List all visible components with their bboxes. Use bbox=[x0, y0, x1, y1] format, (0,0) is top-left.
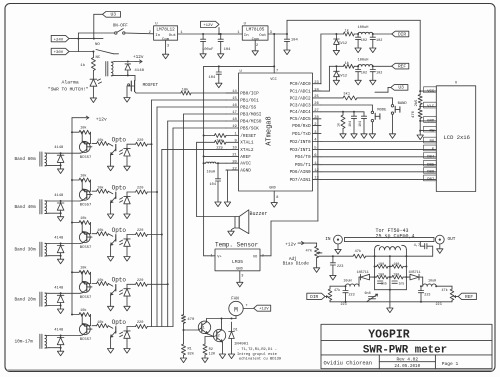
wire switch to U1 In bbox=[125, 32, 154, 35]
svg-text:104: 104 bbox=[358, 121, 362, 127]
svg-text:BC557: BC557 bbox=[80, 156, 92, 160]
svg-text:100uF: 100uF bbox=[202, 48, 214, 52]
resistor 100 (bridge 4) bbox=[390, 274, 407, 279]
wire +30V row bbox=[69, 51, 94, 53]
resistor 10k pullup (10m-17m) bbox=[71, 308, 91, 326]
wire bus PB5 to opto5 bbox=[173, 128, 226, 327]
pin 1 /RESET bbox=[226, 133, 256, 139]
relay coil Band Band 80m bbox=[40, 152, 49, 166]
resistor R1 82k bbox=[180, 330, 194, 363]
pin 27 PC4/ADC4 bbox=[290, 109, 321, 115]
svg-text:1: 1 bbox=[211, 254, 213, 258]
wire +24V row bbox=[69, 38, 103, 40]
optocoupler (Band 40m) bbox=[108, 184, 126, 214]
ground (Band 80m diode) bbox=[57, 165, 63, 173]
inductor 10uH (REF det) bbox=[423, 280, 452, 288]
zener 5V12 (REF) bbox=[333, 66, 347, 85]
svg-text:PD2/INT0: PD2/INT0 bbox=[290, 140, 311, 145]
wire bridge center to ground bbox=[387, 256, 393, 312]
pin 13 PD7/AIN1 bbox=[290, 177, 321, 183]
svg-text:2: 2 bbox=[262, 254, 264, 258]
switch ON-OFF bbox=[113, 24, 129, 34]
svg-text:DIR: DIR bbox=[310, 294, 318, 300]
capacitor 104 (pin27 b) bbox=[358, 112, 367, 139]
svg-text:28: 28 bbox=[314, 116, 319, 120]
resistor 470 (fan driver) bbox=[182, 315, 195, 331]
ground (10m-17m diode) bbox=[57, 348, 63, 356]
svg-text:PC4/ADC4: PC4/ADC4 bbox=[290, 110, 311, 115]
label toroid bbox=[376, 228, 415, 239]
inductor 10uH (DIR det) bbox=[330, 280, 359, 288]
svg-text:21: 21 bbox=[232, 154, 237, 158]
transistor T2 bbox=[213, 322, 225, 354]
svg-text:MOSFET: MOSFET bbox=[143, 83, 159, 88]
svg-text:10uH: 10uH bbox=[207, 170, 216, 174]
resistor 470 (contrast low) bbox=[412, 107, 422, 119]
connector OUT bbox=[435, 235, 455, 253]
diode 4148 (10m-17m) bbox=[54, 329, 64, 348]
capacitor 223 (REF det 2) bbox=[436, 303, 442, 307]
resistor 220 (Band 30m) bbox=[127, 229, 162, 236]
resistor 10k base (10m-17m) bbox=[87, 320, 109, 329]
capacitor 1n5 (bridge left) bbox=[378, 277, 387, 285]
svg-text:VO: VO bbox=[253, 256, 257, 260]
page 1 bbox=[442, 361, 459, 367]
wire XTAL1 to buzzer bus bbox=[197, 142, 215, 216]
svg-text:2: 2 bbox=[149, 31, 151, 35]
svg-text:PD0/RxD: PD0/RxD bbox=[292, 124, 311, 129]
label 10m-17m bbox=[15, 340, 34, 345]
svg-text:Alarma: Alarma bbox=[62, 80, 79, 86]
svg-text:Bias Diode: Bias Diode bbox=[283, 261, 310, 266]
resistor 100 (bridge 1) bbox=[375, 263, 390, 268]
resistor 100 (bridge 2) bbox=[390, 263, 407, 268]
wire DB7 line bbox=[321, 175, 436, 182]
date 24.05.2010 bbox=[394, 364, 420, 369]
svg-text:MODE: MODE bbox=[377, 109, 387, 113]
svg-text:M: M bbox=[234, 306, 238, 313]
optocoupler (Band 30m) bbox=[108, 227, 126, 257]
wire bridge right arm bbox=[405, 250, 407, 290]
pin 12 PD6/AIN0 bbox=[290, 169, 321, 175]
ground (opto LED Band 20m) bbox=[124, 306, 130, 311]
svg-text:BAND: BAND bbox=[398, 102, 408, 106]
svg-text:8: 8 bbox=[276, 196, 278, 200]
wire VCC feed to U4 bbox=[204, 34, 276, 67]
svg-text:104: 104 bbox=[348, 121, 352, 127]
capacitor 223 (bias) bbox=[330, 256, 344, 280]
svg-text:REF: REF bbox=[465, 294, 473, 300]
svg-text:YO6PIR: YO6PIR bbox=[368, 329, 410, 342]
resistor 10k (gate) bbox=[181, 88, 191, 95]
svg-text:102: 102 bbox=[361, 72, 367, 76]
node +12V tag (fan) bbox=[243, 305, 271, 312]
svg-text:25: 25 bbox=[314, 95, 319, 99]
ground (opto transistor 10m-17m) bbox=[107, 349, 113, 354]
svg-text:+24V: +24V bbox=[54, 38, 64, 42]
resistor 220 (Band 80m) bbox=[127, 139, 152, 146]
title block frame bbox=[321, 324, 492, 368]
svg-text:223: 223 bbox=[424, 294, 430, 298]
pin 17 PB3/MOSI bbox=[226, 111, 262, 117]
transistor BC557 (Band 20m) bbox=[79, 272, 92, 300]
wire pin24 to REF filter bbox=[313, 65, 338, 91]
svg-text:PC2/ADC2: PC2/ADC2 bbox=[290, 96, 311, 101]
svg-text:4148: 4148 bbox=[54, 194, 64, 198]
svg-text:OUT: OUT bbox=[448, 237, 456, 242]
svg-text:BC557: BC557 bbox=[80, 246, 92, 250]
button BAND bbox=[389, 98, 407, 138]
svg-text:4148: 4148 bbox=[134, 69, 144, 73]
IC LM35 bbox=[211, 249, 264, 278]
resistor 10k pullup (Band 20m) bbox=[71, 266, 91, 284]
svg-text:Out: Out bbox=[259, 34, 266, 38]
capacitor 1n5 (bridge right) bbox=[392, 281, 404, 285]
pin 20 AVCC bbox=[226, 160, 251, 166]
svg-text:PD6/AIN0: PD6/AIN0 bbox=[290, 170, 311, 175]
svg-text:PC1/ADC1: PC1/ADC1 bbox=[290, 90, 311, 95]
svg-text:PB1/OC1: PB1/OC1 bbox=[240, 98, 259, 103]
svg-text:+12v: +12v bbox=[96, 116, 107, 122]
ground (opto LED Band 40m) bbox=[124, 214, 130, 219]
wire coil bottom row Band 80m bbox=[49, 164, 62, 166]
wire +12v band rail bbox=[71, 118, 73, 315]
wire coil bottom row Band 30m bbox=[49, 255, 62, 257]
svg-text:Opto: Opto bbox=[112, 137, 127, 144]
wire RS line bbox=[321, 137, 436, 144]
svg-text:ON-OFF: ON-OFF bbox=[113, 24, 129, 28]
svg-text:Buzzer: Buzzer bbox=[250, 211, 268, 217]
wire bridge top connector bbox=[375, 255, 407, 257]
svg-text:5V12: 5V12 bbox=[338, 75, 347, 79]
relay coil Lk (alarm) bbox=[106, 62, 115, 77]
svg-text:LCD 2x16: LCD 2x16 bbox=[444, 134, 470, 141]
svg-text:REF: REF bbox=[398, 63, 406, 69]
svg-text:13: 13 bbox=[314, 177, 319, 181]
pin 3 PD1/TxD bbox=[292, 131, 321, 137]
svg-text:VCC: VCC bbox=[270, 78, 276, 82]
svg-text:7: 7 bbox=[276, 70, 278, 74]
svg-text:10k: 10k bbox=[80, 308, 86, 313]
svg-text:Page 1: Page 1 bbox=[442, 361, 459, 367]
wire DIR det bottom rail bbox=[330, 301, 390, 303]
wire coil bottom row Band 40m bbox=[49, 212, 62, 214]
pin 19 PB5/SCK bbox=[226, 125, 259, 131]
power arrow +12v (band drivers) bbox=[72, 116, 107, 122]
svg-text:100uH: 100uH bbox=[358, 59, 369, 63]
diode 4148 (Band 40m) bbox=[54, 194, 64, 213]
svg-text:47k: 47k bbox=[306, 248, 312, 253]
svg-text:LM78L12: LM78L12 bbox=[156, 28, 175, 33]
diode 4148 (Band 80m) bbox=[54, 146, 64, 165]
svg-text:ATmega8: ATmega8 bbox=[266, 116, 274, 145]
svg-text:14: 14 bbox=[232, 90, 237, 94]
svg-text:Opto: Opto bbox=[112, 184, 127, 191]
svg-text:R2: R2 bbox=[209, 348, 213, 352]
pin 28 PC5/ADC5 bbox=[290, 116, 321, 122]
svg-text:10: 10 bbox=[232, 147, 237, 151]
svg-text:BC557: BC557 bbox=[80, 296, 92, 300]
ground (opto transistor Band 80m) bbox=[107, 166, 113, 171]
power arrow +12v (alarm) bbox=[133, 55, 144, 63]
wire MOSFET gate to R 10k bbox=[136, 92, 181, 94]
note text (fan group) bbox=[237, 348, 281, 362]
resistor 10k base (Band 30m) bbox=[87, 228, 109, 237]
svg-text:PB0/ICP: PB0/ICP bbox=[240, 91, 259, 96]
pin 9 XTAL1 bbox=[226, 140, 254, 146]
svg-text:RS: RS bbox=[429, 140, 434, 144]
LED of opto (Band 40m) bbox=[120, 192, 131, 214]
pin 4 PD2/INT0 bbox=[290, 139, 321, 145]
label Adj Bias Diode bbox=[283, 257, 310, 267]
svg-text:1n5: 1n5 bbox=[381, 281, 387, 285]
svg-text:PD3/INT1: PD3/INT1 bbox=[290, 148, 311, 153]
capacitor 102 (REF filter b) bbox=[370, 66, 383, 85]
svg-text:104: 104 bbox=[209, 76, 217, 80]
svg-text:DB6: DB6 bbox=[427, 171, 435, 175]
title SWR-PWR meter bbox=[363, 344, 447, 356]
wire bus PB4 to opto4 bbox=[167, 121, 226, 327]
wire bridge bottom rail bbox=[375, 289, 407, 291]
svg-text:VCC: VCC bbox=[427, 90, 435, 94]
transistor T1 bbox=[198, 319, 213, 337]
svg-text:4148: 4148 bbox=[54, 286, 64, 290]
ground (opto LED Band 30m) bbox=[124, 257, 130, 262]
svg-text:223: 223 bbox=[337, 265, 343, 269]
svg-text:PC5/ADC5: PC5/ADC5 bbox=[290, 117, 311, 122]
svg-text:6n8: 6n8 bbox=[365, 292, 371, 296]
diode D1 1N4001 bbox=[228, 322, 249, 359]
svg-text:24: 24 bbox=[314, 88, 319, 92]
svg-text:15: 15 bbox=[232, 97, 237, 101]
wire +5V to LCD rail (top) bbox=[287, 20, 420, 91]
wire U3 to +24V row bbox=[93, 14, 103, 39]
LED Alarma bbox=[48, 71, 102, 103]
capacitor 104 (pin27 a) bbox=[348, 112, 357, 139]
capacitor 22p (XTAL) bbox=[214, 140, 226, 150]
diode 1N5711 (REF det) bbox=[406, 271, 422, 286]
svg-text:Opto: Opto bbox=[112, 319, 127, 326]
svg-text:470: 470 bbox=[412, 110, 416, 118]
resistor 10k base (Band 80m) bbox=[87, 138, 109, 147]
ground (opto transistor Band 30m) bbox=[107, 257, 113, 262]
wire DB4 line bbox=[321, 153, 436, 160]
ground of U1 bbox=[162, 40, 168, 59]
svg-text:PC0/ADC0: PC0/ADC0 bbox=[290, 82, 311, 87]
svg-text:4,7: 4,7 bbox=[414, 244, 420, 248]
svg-text:Band 30m: Band 30m bbox=[15, 248, 36, 253]
svg-text:2: 2 bbox=[256, 44, 258, 48]
svg-text:23: 23 bbox=[314, 81, 319, 85]
resistor 10k base (Band 40m) bbox=[87, 186, 109, 195]
capacitor 104 (AVCC) bbox=[210, 163, 222, 206]
svg-text:Ovidiu Chiorean: Ovidiu Chiorean bbox=[324, 361, 373, 367]
wire +5V rail bbox=[268, 33, 288, 35]
svg-text:4148: 4148 bbox=[54, 237, 64, 241]
svg-text:1n5: 1n5 bbox=[399, 281, 405, 285]
wire coil top row 10m-17m bbox=[49, 335, 80, 337]
wire VLC to LCD bbox=[419, 102, 436, 109]
svg-text:PD1/TxD: PD1/TxD bbox=[292, 132, 311, 137]
svg-text:18: 18 bbox=[232, 118, 237, 122]
regulator U1 LM78L12 bbox=[149, 22, 183, 48]
svg-text:PB5/SCK: PB5/SCK bbox=[240, 126, 259, 131]
ground (opto LED 10m-17m) bbox=[124, 349, 130, 354]
capacitor 104 (U4 VCC) bbox=[209, 66, 223, 87]
ground (opto transistor Band 20m) bbox=[107, 306, 113, 311]
node +30V tag bbox=[51, 48, 69, 55]
LED of opto (Band 80m) bbox=[120, 144, 131, 166]
pin 8 GND of U4 bbox=[271, 191, 278, 207]
wire +12V rail bbox=[178, 33, 243, 35]
transistor BC557 (Band 40m) bbox=[79, 180, 92, 208]
wire XTAL2 bus bbox=[161, 149, 226, 326]
wire coil top row Band 20m bbox=[49, 292, 80, 294]
svg-text:Out: Out bbox=[169, 34, 176, 38]
svg-text:16: 16 bbox=[232, 104, 237, 108]
svg-text:100uH: 100uH bbox=[358, 26, 369, 30]
svg-text:20: 20 bbox=[232, 160, 237, 164]
pin 6 PD4/T0 bbox=[295, 154, 321, 160]
motor FAN bbox=[229, 297, 249, 315]
svg-text:Band 40m: Band 40m bbox=[15, 205, 36, 210]
svg-text:26: 26 bbox=[314, 102, 319, 106]
svg-text:1N4001: 1N4001 bbox=[234, 343, 249, 347]
wire coil top to +12v bbox=[115, 61, 136, 63]
label Band 20m bbox=[15, 297, 36, 302]
ground (Band 30m diode) bbox=[57, 256, 63, 264]
svg-text:17: 17 bbox=[232, 111, 237, 115]
svg-text:FAN: FAN bbox=[231, 297, 239, 301]
resistor 220 (Band 40m) bbox=[127, 187, 157, 194]
wire LM35 V+ to VCC net bbox=[204, 255, 215, 257]
svg-text:AVCC: AVCC bbox=[240, 162, 251, 167]
pin 11 PD5/T1 bbox=[295, 162, 321, 168]
diode 4148 (Band 20m) bbox=[54, 286, 64, 305]
svg-text:LM35: LM35 bbox=[232, 259, 243, 265]
svg-text:10m-17m: 10m-17m bbox=[15, 340, 34, 345]
svg-text:104: 104 bbox=[291, 39, 299, 43]
svg-text:4148: 4148 bbox=[54, 329, 64, 333]
svg-text:25 sp CuEm0,4: 25 sp CuEm0,4 bbox=[376, 234, 415, 240]
LED of opto (Band 20m) bbox=[120, 284, 131, 306]
wire bridge left arm bbox=[374, 250, 376, 290]
pin 15 PB1/OC1 bbox=[226, 97, 259, 103]
svg-text:/RESET: /RESET bbox=[240, 134, 256, 139]
pin 23 PC0/ADC0 bbox=[290, 81, 321, 87]
svg-text:AGND: AGND bbox=[240, 169, 251, 174]
inductor 10uH (AVCC) bbox=[204, 162, 226, 174]
svg-text:Opto: Opto bbox=[112, 227, 127, 234]
svg-text:223: 223 bbox=[341, 303, 347, 307]
IC U4 ATmega8 bbox=[239, 70, 313, 191]
svg-text:XTAL2: XTAL2 bbox=[240, 148, 254, 153]
regulator U2 LM78L05 bbox=[237, 22, 272, 48]
svg-text:+12V: +12V bbox=[203, 24, 213, 28]
resistor 1k (REF filter) bbox=[336, 61, 359, 68]
svg-text:DIR: DIR bbox=[398, 31, 406, 37]
label Band 80m bbox=[15, 157, 36, 162]
capacitor 102 (REF filter a) bbox=[355, 66, 367, 85]
resistor 47k (bias feed) bbox=[333, 249, 375, 258]
pin 16 PB2/SS bbox=[226, 104, 256, 110]
label Temp. Sensor bbox=[215, 241, 259, 248]
capacitor 104 (after U1) bbox=[218, 34, 232, 58]
pin 7 VCC of U4 bbox=[274, 66, 278, 73]
pin 21 AREF bbox=[226, 154, 251, 160]
transistor BC557 (10m-17m) bbox=[79, 315, 92, 343]
svg-text:10uH: 10uH bbox=[343, 280, 351, 284]
pin 22 AGND bbox=[226, 167, 251, 173]
svg-text:Band 80m: Band 80m bbox=[15, 157, 36, 162]
potentiometer 47k (bias) bbox=[306, 243, 323, 272]
svg-text:+12v: +12v bbox=[285, 242, 296, 247]
node U3 tag (LCD) bbox=[375, 85, 408, 93]
wire coil top row Band 40m bbox=[49, 200, 80, 202]
capacitor 104 (after U2) bbox=[284, 34, 299, 55]
svg-text:19: 19 bbox=[232, 125, 237, 129]
svg-text:223: 223 bbox=[349, 294, 355, 298]
power arrow +12v (bias) bbox=[285, 242, 310, 248]
resistor 1k (DIR filter) bbox=[336, 29, 359, 36]
svg-text:U3: U3 bbox=[110, 12, 116, 18]
wire 470 to T1 base bbox=[184, 329, 199, 331]
wire bias to bridge bbox=[319, 255, 334, 257]
wire coil top row Band 30m bbox=[49, 243, 80, 245]
contact NO label bbox=[95, 43, 100, 47]
svg-text:10uH: 10uH bbox=[428, 280, 436, 284]
node DIR tag (top) bbox=[373, 31, 409, 37]
svg-text:12: 12 bbox=[314, 169, 319, 173]
relay coil Band Band 30m bbox=[40, 242, 49, 256]
svg-text:3: 3 bbox=[241, 274, 243, 278]
zener 5V12 (DIR) bbox=[333, 34, 347, 55]
node REF tag (bridge) bbox=[456, 293, 477, 300]
wire bus PB2 to opto2 bbox=[156, 107, 226, 327]
svg-text:Intreg grupul este: Intreg grupul este bbox=[237, 352, 277, 357]
node +12V tag (top) bbox=[201, 21, 220, 34]
pin 5 PD3/INT1 bbox=[290, 147, 321, 153]
transistor BC557 (Band 80m) bbox=[79, 132, 92, 160]
wire VCC to LCD bbox=[419, 87, 436, 94]
LCD module 2x16 bbox=[436, 82, 475, 192]
svg-text:PC3/ADC3: PC3/ADC3 bbox=[290, 103, 311, 108]
wire bus PB1 to opto1 bbox=[151, 100, 227, 327]
svg-text:IN: IN bbox=[325, 237, 331, 242]
svg-text:"SWR TO MUTCH!": "SWR TO MUTCH!" bbox=[48, 87, 89, 93]
transistor MOSFET Q1 bbox=[124, 75, 159, 102]
ground (Band 20m diode) bbox=[57, 306, 63, 314]
wire coil top row Band 80m bbox=[49, 152, 80, 154]
author Ovidiu Chiorean bbox=[324, 361, 373, 367]
pin 18 PB4/MISO bbox=[226, 118, 262, 124]
pin 25 PC2/ADC2 bbox=[290, 95, 321, 101]
resistor 10k pullup (Band 30m) bbox=[71, 216, 91, 234]
svg-text:10k: 10k bbox=[80, 126, 86, 131]
svg-text:echivalent cu BD139: echivalent cu BD139 bbox=[239, 357, 281, 362]
svg-text:DB7: DB7 bbox=[427, 178, 435, 182]
svg-text:RW: RW bbox=[429, 129, 434, 133]
svg-text:+30V: +30V bbox=[54, 51, 64, 55]
svg-text:11: 11 bbox=[314, 162, 319, 166]
svg-text:LM78L05: LM78L05 bbox=[246, 28, 265, 33]
resistor 1k (alarm LED) bbox=[80, 52, 95, 71]
relay contact arm bbox=[96, 50, 119, 54]
resistor 10k (/RESET pullup) bbox=[204, 134, 226, 144]
svg-text:PD4/T0: PD4/T0 bbox=[295, 155, 311, 160]
label Band 40m bbox=[15, 205, 36, 210]
resistor 220 (10m-17m) bbox=[127, 321, 173, 328]
